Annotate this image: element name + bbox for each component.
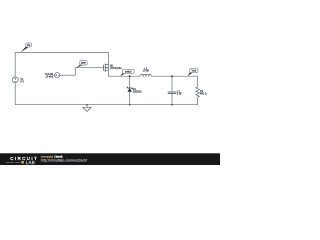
voltage source V1	[12, 77, 24, 84]
wire C1 top lead	[171, 76, 173, 92]
node junction capacitor/rail	[171, 104, 173, 106]
svg-text:ZVP2106A: ZVP2106A	[110, 67, 122, 70]
svg-text:LAB: LAB	[26, 160, 36, 165]
capacitor C1	[168, 90, 183, 95]
wire M1 source drop	[107, 53, 109, 65]
wire D1 top lead	[129, 76, 131, 88]
svg-text:gate: gate	[81, 62, 86, 65]
wire R1 top lead	[197, 76, 199, 87]
wire R1 bottom lead	[197, 97, 199, 105]
wire M1 drain drop	[107, 71, 109, 77]
diode D1 (schottky)	[127, 87, 143, 93]
svg-text:480 Ω: 480 Ω	[200, 93, 207, 96]
wire D1 bottom lead	[129, 92, 131, 105]
svg-text:1N5819: 1N5819	[133, 90, 142, 93]
node flag Vin	[21, 43, 32, 52]
node flag switch	[120, 69, 134, 76]
wire bottom rail	[15, 104, 197, 106]
svg-text:10 uH: 10 uH	[143, 70, 150, 73]
svg-text:9 V: 9 V	[20, 81, 24, 84]
svg-text:1 uF: 1 uF	[177, 92, 182, 95]
inductor L1	[139, 67, 151, 77]
wire switch node horizontal	[108, 75, 139, 77]
wire gate riser	[74, 68, 76, 76]
wire V1 bottom lead	[14, 83, 16, 105]
svg-text:http://circuitlab.com/ce23amf: http://circuitlab.com/ce23amf	[41, 159, 87, 163]
wire gate horizontal	[75, 67, 103, 69]
wire V1 top lead	[14, 53, 16, 77]
wire V2 output lead	[60, 74, 76, 76]
node junction ground/rail	[86, 104, 88, 106]
node junction at switch/diode	[129, 75, 131, 77]
node junction diode/rail	[129, 104, 131, 106]
voltage source V2 (pulse)	[45, 73, 60, 79]
wire ground stub	[86, 105, 88, 108]
wire output node horizontal	[152, 75, 198, 77]
ground	[83, 107, 91, 111]
footer bar	[0, 153, 220, 165]
node junction at output/capacitor	[171, 75, 173, 77]
node flag gate	[77, 61, 88, 68]
transistor M1 (PMOS)	[104, 64, 122, 73]
wire C1 bottom lead	[171, 94, 173, 105]
svg-text:switch: switch	[125, 70, 132, 73]
wire top rail	[15, 52, 108, 54]
resistor R1	[196, 87, 207, 97]
svg-text:10 kHz: 10 kHz	[46, 75, 55, 78]
svg-text:Vout: Vout	[191, 70, 196, 73]
node flag Vout	[187, 69, 198, 76]
